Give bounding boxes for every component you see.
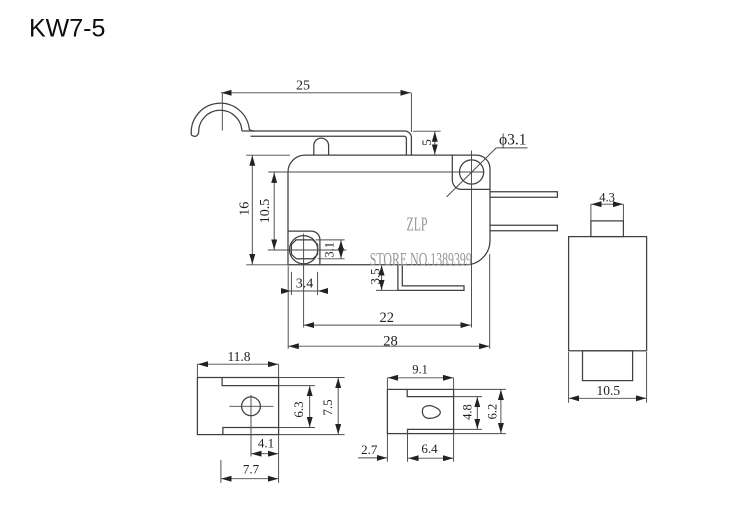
dim 4.3 left extension — [590, 204, 592, 221]
dim 3.4 right outside arrow — [318, 290, 328, 292]
svg-text:10.5: 10.5 — [596, 383, 620, 398]
svg-text:4.8: 4.8 — [460, 404, 474, 420]
dim 11.8 line — [197, 363, 278, 365]
svg-text:5: 5 — [419, 139, 434, 146]
dim 3.4 right extension — [317, 272, 319, 295]
svg-text:6.4: 6.4 — [421, 441, 438, 456]
dim 6.4 line — [408, 457, 454, 459]
phi3.1 leader underline — [496, 147, 527, 149]
dim 2.7 left extension — [386, 434, 388, 462]
bottom-middle view teardrop hole — [422, 406, 440, 419]
dim 4.8 bottom extension — [454, 428, 482, 430]
dim 6.3 top extension — [279, 385, 315, 387]
dim 4.8 top extension — [454, 396, 482, 398]
svg-text:4.1: 4.1 — [258, 436, 274, 451]
bottom-middle view bottom step — [408, 429, 454, 433]
dim 22 line — [304, 324, 471, 326]
lever arm top line with bend — [242, 131, 412, 155]
phi3.1 leader diagonal — [447, 148, 497, 197]
dim 3.1 line — [340, 240, 342, 259]
lever hook left end cap — [192, 133, 199, 137]
dim 6.3 bottom extension — [279, 427, 315, 429]
dim 3.4 left outside arrow — [281, 290, 291, 292]
dim 4.1 line — [251, 453, 279, 455]
dim 10.5 side left extension — [568, 352, 570, 403]
dim 9.1 line — [387, 377, 453, 379]
roller crosshair horizontal — [268, 249, 347, 251]
dim 3.4 line middle — [291, 290, 317, 292]
dim 9.1 left extension — [386, 378, 388, 390]
bottom-left hole crosshair vertical / dim 4.1 left extension — [250, 395, 252, 457]
dim 3.1 bottom extension — [318, 258, 345, 260]
bottom-left view hole — [242, 397, 261, 416]
side view body — [569, 237, 647, 351]
dim 7.7 left extension — [220, 460, 222, 483]
dim 6.3 line — [309, 386, 311, 428]
dim 10.5 side right extension — [646, 352, 648, 403]
dim 6.4 left extension — [407, 429, 409, 461]
svg-text:22: 22 — [380, 310, 395, 326]
svg-text:4.3: 4.3 — [599, 191, 615, 205]
dim 10.5 top extension to hole centre — [268, 171, 483, 173]
lever hook outer arc — [191, 103, 254, 135]
lever hook inner arc — [199, 110, 242, 133]
dim 7.5 bottom extension — [279, 434, 345, 436]
L bracket under body — [398, 265, 464, 291]
side view foot — [583, 351, 633, 381]
mounting boss top-right — [452, 155, 490, 189]
dim 3.5 extension — [376, 289, 398, 291]
dim 10.5 line — [273, 172, 275, 250]
dim 4.8 line — [476, 397, 478, 430]
svg-text:25: 25 — [296, 79, 310, 94]
bottom-left hole crosshair horizontal — [230, 405, 274, 407]
dim 5 top extension — [413, 130, 441, 132]
dim 4.1 right extension — [278, 435, 280, 483]
roller boss bottom-left — [288, 231, 320, 265]
svg-text:10.5: 10.5 — [258, 199, 273, 224]
dim 3.1 top extension — [316, 239, 345, 241]
dim 11.8 right extension — [278, 364, 280, 377]
svg-text:11.8: 11.8 — [227, 349, 250, 364]
dim 6.2 bottom extension — [454, 433, 506, 435]
dim 16 line — [251, 155, 253, 264]
roller crosshair vertical / dim 22 left extension — [303, 234, 305, 328]
dim 7.5 line — [337, 378, 339, 435]
terminal pin 2 — [490, 225, 557, 231]
dim 10.5 side line — [569, 397, 647, 399]
dim 6.4 right extension — [453, 434, 455, 462]
dim 28 line — [288, 345, 490, 347]
svg-text:16: 16 — [237, 202, 252, 216]
dim 6.2 line — [500, 389, 502, 433]
dim 28 left extension — [287, 266, 289, 349]
svg-text:7.5: 7.5 — [320, 399, 335, 415]
dim 2.7 leader arrow — [358, 457, 387, 459]
roller octagon — [291, 240, 317, 259]
dim 7.7 line — [221, 478, 279, 480]
terminal pin 1 — [490, 192, 557, 198]
hole crosshair vertical / dim 22 right extension — [471, 151, 473, 328]
dim 9.1 right extension — [453, 378, 455, 390]
plunger dome — [314, 138, 329, 155]
bottom-left view bottom step — [223, 428, 279, 435]
roller circle — [290, 236, 318, 264]
dim 3.5 line — [381, 265, 383, 291]
svg-text:2.7: 2.7 — [361, 442, 378, 457]
lever arm bottom line with bend — [251, 136, 407, 155]
svg-text:KW7-5: KW7-5 — [29, 15, 105, 43]
dim 25 line — [221, 92, 411, 94]
mounting hole phi3.1 — [460, 160, 484, 184]
dim 7.5 top extension — [279, 377, 345, 379]
svg-text:3.5: 3.5 — [368, 268, 383, 284]
svg-text:3.4: 3.4 — [296, 277, 314, 292]
bottom-left view top step — [222, 378, 279, 386]
dim 4.3 right extension — [622, 204, 624, 221]
bottom-left view outer rect — [197, 378, 278, 435]
svg-text:6.2: 6.2 — [485, 404, 499, 420]
svg-text:6.3: 6.3 — [291, 401, 306, 417]
dim 3.4 left extension — [290, 272, 292, 295]
svg-text:3.1: 3.1 — [322, 242, 336, 258]
svg-text:ϕ3.1: ϕ3.1 — [499, 132, 527, 149]
dim 6.2 top extension — [454, 388, 506, 390]
dim 28 right extension — [489, 254, 491, 349]
dim 16 bottom extension — [246, 264, 290, 266]
dim 25 right extension — [410, 93, 412, 132]
dim 16 top extension — [246, 154, 290, 156]
dim 25 left tick through hook — [221, 93, 223, 131]
svg-text:7.7: 7.7 — [243, 462, 260, 477]
side view plunger — [591, 221, 624, 237]
dim 5 line — [434, 131, 436, 155]
switch body outline — [288, 155, 490, 265]
svg-text:ZLP: ZLP — [407, 214, 428, 236]
dim 11.8 left extension — [196, 364, 198, 377]
bottom-middle view outer rect — [387, 389, 453, 433]
svg-text:STORE NO.1389399: STORE NO.1389399 — [370, 250, 472, 270]
svg-text:9.1: 9.1 — [412, 362, 428, 376]
svg-text:28: 28 — [383, 333, 398, 349]
dim 4.3 line — [591, 203, 624, 205]
bottom-middle view top step — [407, 389, 453, 396]
